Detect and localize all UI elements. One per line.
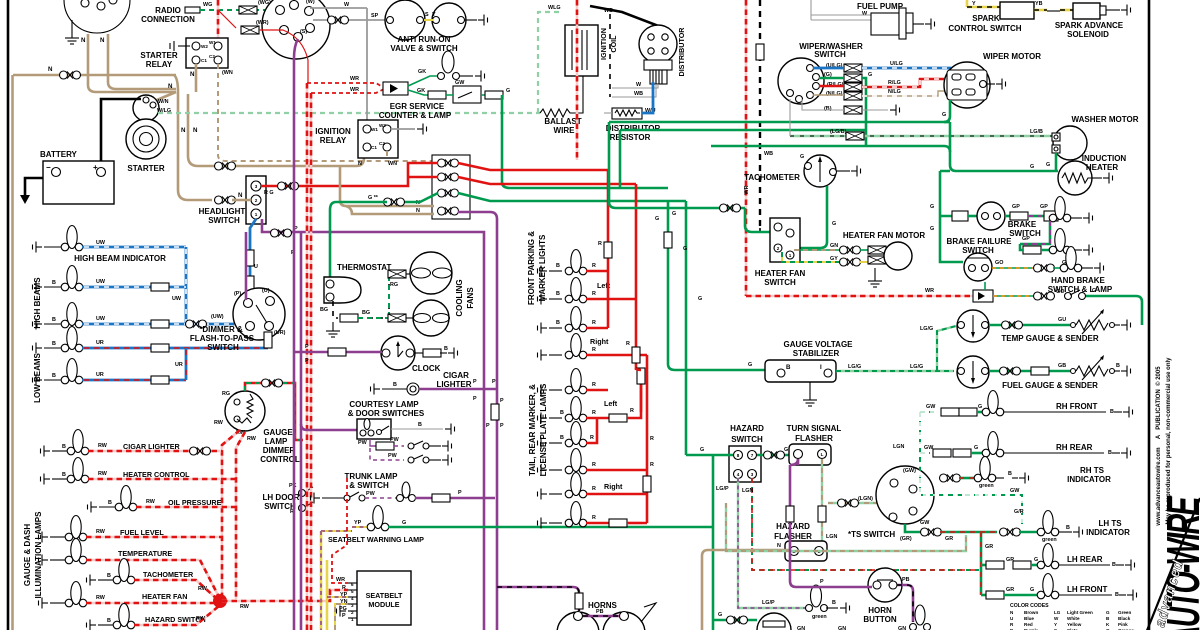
wire GO from diode [993,295,1035,297]
svg-text:UW: UW [96,240,106,246]
svg-text:G: G [402,520,406,526]
svg-text:RH TS: RH TS [1080,466,1105,475]
svg-text:RH FRONT: RH FRONT [1056,402,1097,411]
wire P clock [294,351,382,354]
wire P cigar lighter [419,388,497,391]
ignition relay [358,120,398,158]
svg-text:HEATER: HEATER [1086,163,1119,172]
lamp fuel level illumination [35,532,48,543]
EGR counter [408,90,428,95]
svg-text:RW: RW [247,436,257,442]
svg-text:GR: GR [985,544,993,550]
svg-text:GR: GR [945,536,953,542]
svg-text:N: N [181,127,186,134]
svg-text:R G: R G [264,190,274,196]
svg-text:R: R [590,435,594,441]
svg-text:GN: GN [898,626,906,630]
svg-text:GO: GO [995,260,1003,266]
RH TS row [940,474,961,482]
svg-text:W/N: W/N [158,99,169,105]
svg-text:TURN SIGNAL: TURN SIGNAL [787,424,842,433]
svg-text:B: B [1115,592,1119,598]
svg-text:1: 1 [789,253,792,258]
lamp low beam right [29,375,42,386]
svg-text:B: B [107,573,111,579]
svg-text:R: R [592,515,596,521]
wire B battery ground [25,178,43,195]
svg-text:(S): (S) [300,29,307,35]
svg-text:(GW): (GW) [903,468,916,474]
wire G hazard to flasher [757,454,793,457]
horn button [868,568,902,602]
svg-text:(N/LG): (N/LG) [826,91,843,97]
svg-text:TRUNK LAMP: TRUNK LAMP [345,472,399,481]
connector WG [239,6,257,14]
wire G vertical x666 [668,201,767,370]
wiper washer switch [778,58,824,104]
wire G hazard down to horns [712,455,715,630]
svg-text:PB: PB [902,577,910,583]
wire WB vertical [609,14,611,97]
wire N bus link [174,75,178,92]
lamp cigar lighter illumination [37,446,50,457]
svg-text:G: G [1030,587,1034,593]
svg-text:(P): (P) [234,291,241,297]
lamp LGP [806,605,813,612]
svg-text:R: R [592,291,596,297]
svg-text:PW: PW [358,440,368,446]
svg-text:Right: Right [604,482,623,491]
svg-text:Light Green: Light Green [1067,610,1093,615]
spark control switch [967,0,1000,7]
svg-text:RW: RW [196,616,206,622]
lamp front parking left [534,294,547,305]
wire GW dashed loop [920,478,965,495]
svg-text:UR: UR [175,362,183,368]
wire R link rows lower [642,494,647,523]
svg-text:R: R [342,585,346,591]
svg-text:B: B [1110,409,1114,415]
wire P trunk to bus [415,497,495,500]
wire UR dimmer stub [267,342,268,348]
wire GW vertical right [919,412,921,478]
lamp heater fan illumination [35,598,48,609]
wire N junction to starter solenoid [152,92,176,102]
svg-text:CONTROL SWITCH: CONTROL SWITCH [948,24,1021,33]
svg-text:U: U [254,264,258,270]
wire GR hazard 3 down [752,478,979,570]
wiper motor [944,62,990,108]
svg-text:B: B [1008,471,1012,477]
starter relay [186,38,228,68]
svg-text:1: 1 [255,212,258,217]
svg-text:C2: C2 [379,141,385,146]
dimmer switch [233,288,285,340]
svg-text:INDICATOR: INDICATOR [1086,528,1130,537]
svg-text:GW: GW [455,80,465,86]
svg-text:EGR SERVICE: EGR SERVICE [390,102,445,111]
svg-text:CLOCK: CLOCK [412,364,441,373]
svg-text:C1: C1 [201,58,207,63]
svg-text:LG: LG [1054,610,1061,615]
svg-text:G: G [700,447,704,453]
svg-text:Pink: Pink [1118,622,1128,627]
svg-text:STARTER: STARTER [127,164,164,173]
wire RG dimmer control to thermostat [245,383,303,440]
lamp EGR [408,76,437,86]
svg-text:SPARK: SPARK [972,14,1000,23]
AUTO-WIRE logo [1146,498,1200,630]
svg-text:N: N [190,71,195,78]
svg-text:GP: GP [1012,204,1020,210]
svg-text:RW: RW [198,586,208,592]
wire UW vertical [185,247,188,324]
wire WR red dashed top to starter relay [217,0,220,42]
wire N junction down to headlight switch [178,92,212,200]
svg-text:GAUGE: GAUGE [263,428,293,437]
svg-text:RG: RG [390,282,398,288]
lamp front parking right [534,266,547,277]
svg-text:BG: BG [362,310,370,316]
svg-text:S: S [425,12,429,18]
svg-text:B: B [560,435,564,441]
wire R fuse row2 [458,177,636,184]
svg-text:LH FRONT: LH FRONT [1067,585,1108,594]
svg-text:GN: GN [830,243,838,249]
svg-text:P: P [342,613,346,619]
svg-text:G: G [655,216,659,222]
svg-text:OIL PRESSURE: OIL PRESSURE [168,498,222,507]
wire LGN loop bottom [726,503,966,551]
svg-text:N/LG: N/LG [888,89,901,95]
svg-text:MARKER LIGHTS: MARKER LIGHTS [538,234,547,301]
svg-text:P: P [492,379,496,385]
svg-text:SEATBELT: SEATBELT [366,591,403,600]
wire P headlight 1 right [262,219,484,630]
svg-text:R: R [592,462,596,468]
lamp high beam indicator [29,242,42,253]
starter solenoid [133,95,159,121]
connector inline N [60,71,81,79]
wire B wiper ground [802,99,888,110]
svg-text:*DIMMER &: *DIMMER & [199,325,243,334]
wire G hand brake to temp [1086,296,1142,325]
svg-text:Y: Y [1054,622,1057,627]
svg-text:TEMPERATURE: TEMPERATURE [118,549,172,558]
wire G EGR down [502,95,668,188]
svg-text:P: P [458,490,462,496]
svg-text:R: R [592,382,596,388]
wire HT coil to distributor [590,6,656,30]
wire LGN flasher L down [821,459,823,541]
svg-text:& SWITCH: & SWITCH [349,481,389,490]
svg-text:Red: Red [1024,622,1033,627]
svg-text:SWITCH: SWITCH [814,50,846,59]
svg-text:Right: Right [590,337,609,346]
svg-text:RH REAR: RH REAR [1056,443,1093,452]
svg-text:IGNITION: IGNITION [599,28,608,60]
wire WR EGR dashed pair [307,83,384,88]
svg-text:DISTRIBUTOR: DISTRIBUTOR [606,124,661,133]
wire GO hand brake lamp [992,267,1035,269]
wire UR vertical join [185,348,188,380]
wire R headlight feed to fuses [300,163,438,186]
svg-text:GN: GN [838,626,846,630]
wire WR dashed vertical center [576,0,579,160]
fuel gauge [957,356,989,388]
starter motor [126,119,166,159]
wire W to ignition relay [366,8,368,124]
svg-text:R: R [630,408,634,414]
svg-text:GN: GN [797,626,805,630]
svg-text:B: B [418,422,422,428]
svg-text:BRAKE FAILURE: BRAKE FAILURE [947,237,1013,246]
svg-text:SWITCH: SWITCH [764,278,796,287]
svg-text:GK: GK [418,69,426,75]
ballast wire [538,111,542,115]
svg-text:B: B [52,341,56,347]
svg-text:FUEL LEVEL: FUEL LEVEL [120,528,164,537]
wire LGN flasher to TS switch [828,502,884,504]
svg-text:L: L [821,452,824,457]
gauge lamp dimmer control [225,391,265,431]
wire P fuse row4 [458,212,497,630]
svg-text:HEATER FAN: HEATER FAN [755,269,806,278]
wire GP brake lamps [1005,215,1010,218]
connector N headlight feed [215,196,236,204]
wire LGG branch to temp gauge [937,326,956,371]
svg-text:W1: W1 [371,127,378,132]
wire R vertical bus B [636,184,641,412]
svg-text:B: B [1106,616,1110,621]
svg-text:I: I [820,364,822,371]
svg-text:G: G [718,612,722,618]
svg-text:B: B [560,410,564,416]
svg-text:GO: GO [1056,289,1064,295]
svg-text:G **: G ** [368,195,379,201]
wire N alternator right down [108,34,176,89]
svg-text:G: G [868,72,872,78]
node RW star junction [213,594,227,608]
svg-text:RW: RW [96,529,106,535]
svg-text:3: 3 [255,184,258,189]
wire WN relay C2 dashed [218,64,468,198]
svg-text:2: 2 [777,246,780,251]
svg-text:RW: RW [214,420,224,426]
svg-text:3: 3 [751,472,754,477]
svg-text:RW: RW [98,471,108,477]
wire ULG blue [813,68,950,74]
svg-text:INDUCTION: INDUCTION [1082,154,1127,163]
wire BG thermostat to fans [333,301,338,318]
svg-text:R: R [1010,622,1014,627]
svg-text:LOW BEAMS: LOW BEAMS [33,352,42,402]
svg-text:LG/P: LG/P [762,600,775,606]
svg-text:P: P [486,423,490,429]
wire R vertical bus C [646,355,649,523]
wire G bus to induction heater [944,122,1058,171]
wire Y bundle vertical [320,531,323,630]
svg-text:G: G [1046,162,1050,168]
wire R vertical bus A [607,170,610,328]
svg-text:RADIO: RADIO [155,6,181,15]
svg-text:GAUGE VOLTAGE: GAUGE VOLTAGE [783,340,853,349]
svg-text:N: N [358,161,362,167]
wire N left margin vertical [11,75,14,630]
lamp low beam left [29,343,42,354]
svg-text:CIGAR: CIGAR [443,371,469,380]
svg-text:8: 8 [737,453,740,458]
svg-text:P: P [820,579,824,585]
svg-text:R: R [592,347,596,353]
wire G bus C [711,145,866,148]
wire WR to seatbelt [332,478,348,583]
wire NLG tan [813,91,947,96]
svg-text:CIGAR LIGHTER: CIGAR LIGHTER [123,442,181,451]
ground alternator [71,20,73,33]
svg-text:B: B [62,444,66,450]
LH REAR row [981,564,986,567]
svg-text:G: G [800,154,804,160]
svg-text:TAIL, REAR MARKER, &: TAIL, REAR MARKER, & [528,384,537,476]
wire GU temp sender [989,324,1070,327]
svg-text:G: G [1034,557,1038,563]
svg-text:FUEL PUMP: FUEL PUMP [857,2,904,11]
svg-text:*TS SWITCH: *TS SWITCH [848,530,895,539]
svg-text:4: 4 [737,472,740,477]
svg-text:W: W [862,11,868,17]
svg-text:B: B [1108,450,1112,456]
svg-text:R: R [592,320,596,326]
node N junction [174,88,181,95]
svg-text:INDICATOR: INDICATOR [1067,475,1111,484]
svg-text:WN: WN [388,161,397,167]
svg-text:U: U [1010,616,1014,621]
svg-text:N: N [48,66,53,73]
ignition switch W stub [310,7,367,9]
wire G tach down [800,186,827,248]
svg-text:B: B [62,472,66,478]
svg-text:WB: WB [604,8,613,14]
svg-text:RG: RG [222,391,230,397]
svg-text:green: green [812,614,827,620]
svg-text:U/LG: U/LG [890,61,903,67]
brake switch [977,202,1005,230]
wire P cigar vertical pair [491,404,499,420]
distributor [639,25,677,63]
wire N hazard flasher [702,550,790,630]
svg-text:B: B [832,600,836,606]
battery [43,161,114,204]
svg-text:B: B [556,320,560,326]
svg-text:N: N [100,37,105,44]
svg-text:W1: W1 [209,40,216,45]
wire G fuse row3 left connector [404,193,438,202]
temp gauge [957,310,989,342]
svg-text:B: B [1116,363,1120,369]
wire N junction down to ignition relay [188,94,364,166]
svg-text:HEADLIGHT: HEADLIGHT [199,207,246,216]
svg-text:W: W [1054,616,1059,621]
svg-text:UR: UR [96,372,104,378]
wire RLG red [819,85,844,88]
wire G into hazard [686,454,733,457]
lamp high beam left [29,282,42,293]
brake lamp 2 [1020,221,1050,244]
svg-text:HAZARD: HAZARD [730,424,764,433]
fuse box [432,155,470,219]
heater fan switch [770,218,800,262]
svg-text:G: G [1030,164,1034,170]
svg-text:W: W [636,82,642,88]
svg-text:B: B [444,346,448,352]
cooling fan 2 [388,314,406,322]
svg-text:LH TS: LH TS [1098,519,1122,528]
svg-text:LGN: LGN [742,488,753,494]
lamp tail row7 [534,518,547,529]
lamp hazard switch illumination [83,620,96,630]
svg-text:green: green [979,483,994,489]
svg-text:HEATER FAN: HEATER FAN [142,592,187,601]
svg-text:N: N [416,208,420,214]
svg-text:CONNECTION: CONNECTION [141,15,195,24]
svg-text:W2: W2 [379,123,386,128]
cooling fan 1 [388,270,406,278]
svg-text:LG/P: LG/P [716,486,729,492]
svg-text:+: + [93,163,98,172]
svg-text:(UR): (UR) [274,330,286,336]
wire W distributor [612,84,658,88]
wire P courtesy [301,424,357,430]
svg-text:SPARK ADVANCE: SPARK ADVANCE [1055,21,1124,30]
wire RW bus to seatbelt module [222,590,348,601]
wire RG headlight 3 [261,185,300,188]
svg-text:SWITCH: SWITCH [208,216,240,225]
svg-text:TACHOMETER: TACHOMETER [744,173,800,182]
svg-text:P: P [500,423,504,429]
svg-text:(UW): (UW) [211,314,224,320]
washer motor [1053,126,1087,160]
svg-text:LAMP: LAMP [265,437,288,446]
capacitor starter relay [178,45,190,47]
svg-text:RELAY: RELAY [146,60,173,69]
svg-text:White: White [1067,616,1080,621]
svg-text:(LGN): (LGN) [858,496,873,502]
wire G brake feed [940,171,952,216]
svg-text:B: B [1112,562,1116,568]
border frame left [7,0,10,630]
svg-text:COURTESY LAMP: COURTESY LAMP [349,400,419,409]
lamp tail row3 left [534,413,547,424]
svg-text:2: 2 [255,198,258,203]
wire N horizontal to left margin [13,74,176,77]
svg-text:UR: UR [96,340,104,346]
svg-text:C2: C2 [209,54,215,59]
svg-text:G: G [748,362,752,368]
wire G bus B drop [619,130,622,188]
svg-text:HIGH BEAMS: HIGH BEAMS [33,277,42,329]
svg-text:G/R: G/R [1014,509,1024,515]
wire G heater fan feed [745,208,770,232]
wire P main bus vertical [294,39,298,630]
svg-text:SOLENOID: SOLENOID [1067,30,1109,39]
svg-text:R: R [592,486,596,492]
svg-text:B: B [556,291,560,297]
svg-text:Green: Green [1118,610,1131,615]
svg-text:R: R [650,436,654,442]
ignition switch [262,0,330,59]
svg-text:G: G [784,447,788,453]
